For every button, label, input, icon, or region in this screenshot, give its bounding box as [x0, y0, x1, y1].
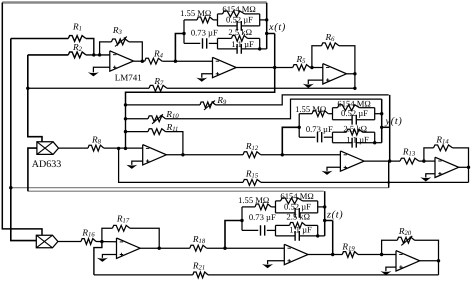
- op-amp U8 integrator-z: [284, 244, 308, 264]
- svg-text:0.52 µF: 0.52 µF: [341, 108, 368, 118]
- wire box2-right (y): [373, 141, 382, 144]
- node z output-node wire: [323, 191, 326, 236]
- resistor 2.5 kohm (x): [218, 27, 260, 49]
- node x input-node wire: [174, 20, 186, 63]
- wire U9 output to R21: [420, 259, 440, 275]
- svg-text:AD633: AD633: [32, 159, 61, 170]
- ground U3: [303, 80, 323, 88]
- wire x(t) down to line B: [126, 68, 275, 105]
- wire y input to R1: [11, 39, 37, 241]
- resistor R18: [190, 234, 284, 251]
- resistor 6154 Mohm (y): [333, 99, 375, 120]
- resistor 1.55 Mohm (y): [295, 104, 332, 117]
- potentiometer R20: [382, 226, 439, 261]
- svg-text:6154 MΩ: 6154 MΩ: [337, 99, 370, 109]
- node y input-node wire: [281, 114, 301, 157]
- wire x(t) tap: [267, 34, 277, 70]
- resistor 2.5 kohm (y): [333, 124, 375, 143]
- svg-text:x(t): x(t): [268, 22, 286, 33]
- resistor 6154 Mohm (x): [218, 4, 260, 26]
- svg-text:0.73 µF: 0.73 µF: [306, 124, 333, 134]
- node y output-node wire: [380, 99, 383, 143]
- ground U2: [196, 74, 212, 82]
- capacitor 0.52 uF (y): [333, 108, 375, 124]
- ground U5: [322, 167, 341, 175]
- svg-text:2.5 kΩ: 2.5 kΩ: [343, 124, 367, 134]
- capacitor 1.1 uF (x): [218, 39, 260, 54]
- resistor R13: [400, 146, 435, 164]
- svg-text:0.73 µF: 0.73 µF: [249, 212, 276, 222]
- wire LM741 output: [134, 60, 145, 62]
- ground U8: [262, 261, 284, 268]
- resistor 1.55 Mohm (x): [180, 8, 217, 23]
- svg-text:6154 MΩ: 6154 MΩ: [280, 191, 313, 201]
- capacitor 0.52 uF (x): [218, 14, 260, 30]
- ground U6: [420, 174, 435, 182]
- op-amp U2 integrator-x: [213, 57, 237, 77]
- svg-text:0.73 µF: 0.73 µF: [191, 27, 218, 37]
- label y(t): [385, 116, 403, 127]
- op-amp U3 inverter-x: [323, 64, 347, 84]
- wire U5 output: [364, 160, 400, 162]
- wire R21 to input: [94, 242, 102, 275]
- wire box1-right (x): [260, 18, 269, 21]
- wire U3 output to R7 line: [347, 72, 357, 90]
- resistor R19: [341, 241, 396, 257]
- label x(t): [268, 22, 286, 33]
- wire x(t) feedback top: [2, 3, 266, 236]
- svg-text:1.1 µF: 1.1 µF: [289, 224, 312, 234]
- node x-R7 junction: [26, 87, 29, 90]
- wire box2-right (x): [258, 47, 267, 50]
- resistor R5: [293, 54, 323, 71]
- potentiometer R3: [100, 25, 144, 63]
- node x output-node wire: [265, 3, 268, 49]
- ground U7: [97, 255, 117, 262]
- resistor R12: [243, 141, 340, 158]
- node z input-node wire: [223, 207, 243, 250]
- wire z to multiplier: [28, 148, 37, 191]
- wire z(t) tap: [325, 221, 335, 257]
- wire y(t) down to bus: [387, 161, 390, 188]
- svg-text:1.55 MΩ: 1.55 MΩ: [238, 195, 269, 205]
- multiplier AD633 xy: [36, 235, 58, 248]
- op-amp U1 LM741: [110, 51, 142, 83]
- op-amp U9 inverter-z: [396, 251, 420, 271]
- svg-text:1.1 µF: 1.1 µF: [346, 134, 369, 144]
- multiplier AD633 xz: [32, 142, 61, 170]
- svg-text:0.52 µF: 0.52 µF: [226, 14, 253, 24]
- resistor R11: [124, 122, 183, 155]
- resistor R16: [58, 227, 117, 244]
- svg-text:1.55 MΩ: 1.55 MΩ: [180, 8, 211, 18]
- svg-text:6154 MΩ: 6154 MΩ: [222, 4, 255, 14]
- resistor R7: [28, 76, 355, 91]
- capacitor 0.73 uF (x): [184, 27, 218, 48]
- capacitor 0.73 uF (z): [242, 212, 276, 236]
- resistor 1.55 Mohm (z): [238, 195, 275, 210]
- label z(t): [326, 210, 343, 221]
- op-amp U4 summing-y: [143, 145, 167, 165]
- wire y(t) tap: [382, 95, 392, 163]
- capacitor 1.1 uF (z): [276, 224, 318, 241]
- resistor R4: [145, 48, 213, 64]
- wire U6 output to R15: [459, 166, 470, 183]
- capacitor 0.73 uF (y): [299, 124, 333, 143]
- resistor R14: [424, 135, 469, 168]
- wire U2 output: [236, 67, 293, 69]
- op-amp U5 integrator-y: [340, 151, 364, 171]
- capacitor 0.52 uF (z): [276, 201, 318, 217]
- wire z(t) feedback bus: [28, 190, 324, 192]
- svg-text:2.5 kΩ: 2.5 kΩ: [286, 212, 310, 222]
- svg-text:1.55 MΩ: 1.55 MΩ: [295, 104, 326, 114]
- wire box1-right (y): [375, 112, 384, 115]
- capacitor 1.1 uF (y): [333, 134, 375, 147]
- svg-text:0.52 µF: 0.52 µF: [284, 201, 311, 211]
- wire U4 output: [166, 153, 243, 156]
- op-amp U7 z-first: [117, 238, 141, 258]
- ground U9: [380, 267, 396, 275]
- svg-text:y(t): y(t): [385, 116, 403, 127]
- resistor R21: [94, 261, 439, 278]
- resistor R17: [102, 214, 161, 250]
- potentiometer R9: [124, 95, 389, 110]
- resistor 6154 Mohm (z): [276, 191, 318, 213]
- svg-text:1.1 µF: 1.1 µF: [231, 39, 254, 49]
- resistor R15: [119, 148, 469, 185]
- wire y input bus: [125, 105, 127, 148]
- node y-R1 junction: [9, 186, 12, 189]
- wire x input vertical: [28, 55, 42, 142]
- svg-text:LM741: LM741: [115, 73, 142, 83]
- resistor R1: [11, 22, 96, 57]
- ground LM741: [88, 67, 110, 76]
- resistor R6: [312, 32, 355, 74]
- svg-text:2.5 kΩ: 2.5 kΩ: [228, 27, 252, 37]
- resistor 2.5 kohm (z): [276, 212, 318, 236]
- wire box1-right (z): [318, 205, 327, 208]
- op-amp U6 inverter-y: [435, 157, 459, 177]
- svg-text:z(t): z(t): [326, 210, 343, 221]
- wire box2-right (z): [316, 234, 325, 237]
- ground U4: [126, 161, 142, 169]
- wire U8 output: [308, 254, 342, 256]
- resistor R8: [58, 135, 143, 151]
- resistor R2: [28, 42, 110, 58]
- potentiometer R10: [124, 99, 382, 124]
- wire y(t) feedback bus: [11, 187, 389, 189]
- wire U7 output: [140, 247, 190, 249]
